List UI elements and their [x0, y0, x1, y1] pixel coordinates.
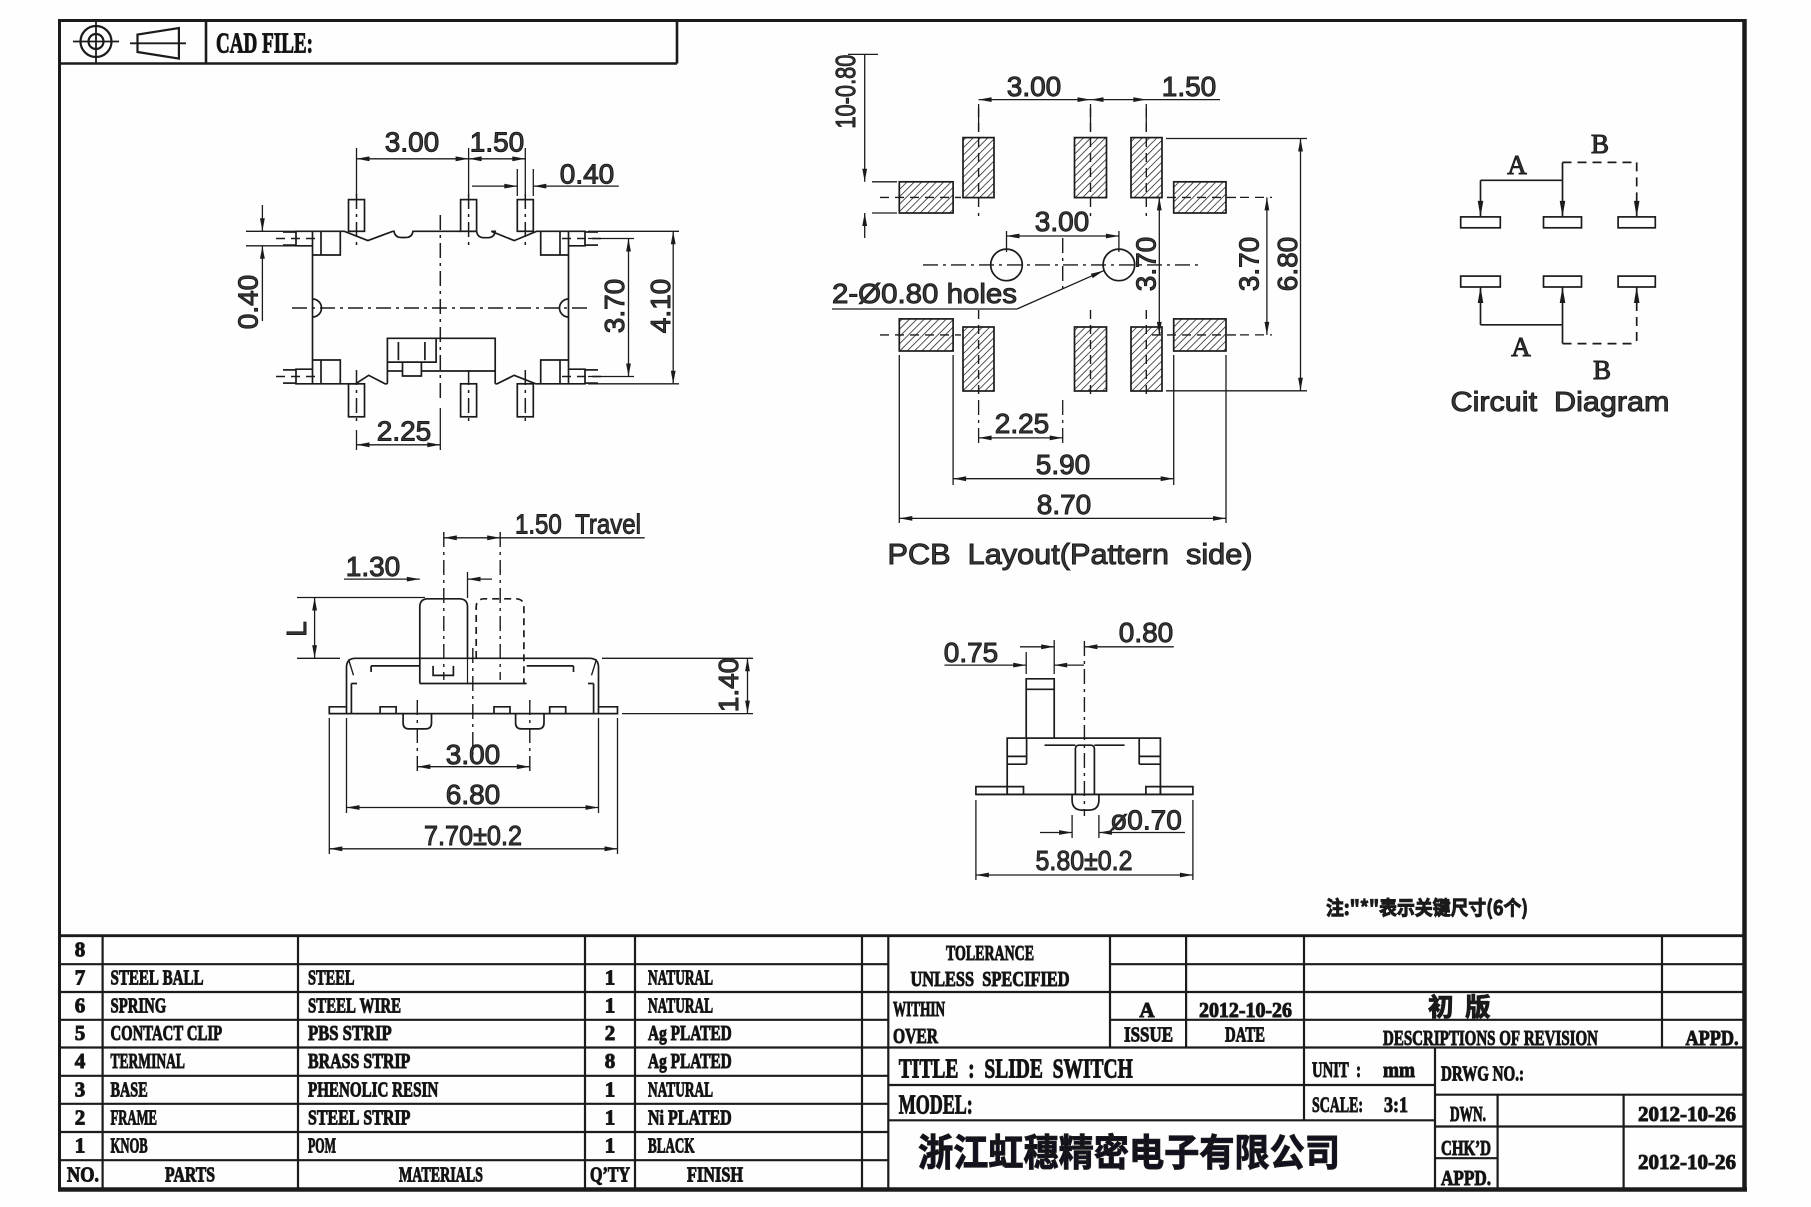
svg-text:3.70: 3.70 — [599, 279, 630, 334]
svg-text:NATURAL: NATURAL — [648, 1077, 713, 1101]
svg-text:OVER: OVER — [893, 1024, 939, 1048]
svg-text:10-0.80: 10-0.80 — [830, 55, 861, 129]
label 2-dia0.80 holes — [832, 269, 1105, 309]
parts table grid — [58, 936, 1746, 1189]
svg-text:STEEL STRIP: STEEL STRIP — [308, 1105, 410, 1129]
svg-text:2-Ø0.80 holes: 2-Ø0.80 holes — [832, 278, 1017, 309]
svg-text:0.75: 0.75 — [944, 637, 999, 668]
front view: bottom feet — [329, 707, 617, 714]
svg-text:PARTS: PARTS — [165, 1162, 215, 1186]
top view: side notch arcs — [313, 299, 569, 317]
svg-text:2012-10-26: 2012-10-26 — [1638, 1150, 1736, 1174]
side view: centerline — [1083, 641, 1085, 816]
svg-text:PBS STRIP: PBS STRIP — [308, 1021, 392, 1045]
svg-text:4.10: 4.10 — [645, 279, 676, 334]
svg-text:MATERIALS: MATERIALS — [399, 1162, 483, 1186]
wire A bottom — [1478, 287, 1566, 325]
svg-text:3.70: 3.70 — [1131, 237, 1162, 292]
svg-text:DESCRIPTIONS OF REVISION: DESCRIPTIONS OF REVISION — [1383, 1026, 1598, 1050]
svg-text:2: 2 — [75, 1105, 86, 1129]
svg-text:1: 1 — [605, 966, 616, 990]
svg-text:2.25: 2.25 — [995, 408, 1050, 439]
svg-text:STEEL WIRE: STEEL WIRE — [308, 993, 401, 1017]
svg-text:UNIT :: UNIT : — [1312, 1057, 1361, 1082]
node label B bottom — [1593, 355, 1611, 385]
svg-text:B: B — [1591, 129, 1609, 159]
svg-text:7: 7 — [75, 966, 86, 990]
svg-text:0.40: 0.40 — [560, 159, 615, 190]
svg-text:3:1: 3:1 — [1384, 1092, 1408, 1117]
node label A top — [1507, 150, 1527, 180]
svg-text:DWN.: DWN. — [1450, 1102, 1486, 1126]
svg-text:1: 1 — [605, 1077, 616, 1101]
front view: bottom legs — [403, 714, 544, 729]
title block grid — [888, 936, 1746, 1189]
parts table text — [67, 937, 743, 1186]
svg-text:BRASS STRIP: BRASS STRIP — [308, 1049, 410, 1073]
dimension dia0.70 side — [1040, 805, 1185, 839]
svg-text:1.30: 1.30 — [346, 551, 401, 582]
circuit terminal 3 bottom — [1618, 276, 1655, 287]
dimension 0.75 side — [944, 637, 1084, 674]
dimension L front — [281, 598, 425, 659]
circuit terminal 1 top — [1461, 217, 1501, 228]
top view: centerlines — [292, 215, 588, 402]
svg-text:4: 4 — [75, 1049, 86, 1073]
dimension 4.10 top view — [588, 231, 679, 383]
svg-text:NATURAL: NATURAL — [648, 966, 713, 990]
svg-text:POM: POM — [308, 1134, 336, 1158]
svg-text:B: B — [1593, 355, 1611, 385]
svg-text:NATURAL: NATURAL — [648, 993, 713, 1017]
note chinese — [1327, 898, 1527, 919]
svg-text:2.25: 2.25 — [377, 416, 432, 447]
svg-text:ISSUE: ISSUE — [1124, 1023, 1173, 1047]
svg-text:6.80: 6.80 — [1272, 237, 1303, 292]
dimension 8.70 PCB — [899, 355, 1226, 523]
top view: terminal pins bottom — [349, 370, 534, 424]
circuit terminal 2 bottom — [1544, 276, 1582, 287]
svg-text:PHENOLIC RESIN: PHENOLIC RESIN — [308, 1077, 438, 1101]
front view: knob posts — [420, 532, 527, 684]
front view: center line — [472, 648, 474, 762]
svg-text:ø0.70: ø0.70 — [1110, 805, 1182, 836]
dimension 5.90 PCB — [953, 355, 1174, 485]
svg-text:1.50: 1.50 — [1162, 71, 1217, 102]
top view: switch body outline — [313, 231, 569, 383]
CAD FILE label — [216, 29, 313, 60]
dimension 3.00 front — [417, 700, 530, 772]
svg-text:1: 1 — [605, 1134, 616, 1158]
svg-text:PCB Layout(Pattern side): PCB Layout(Pattern side) — [888, 539, 1253, 571]
svg-text:APPD.: APPD. — [1686, 1026, 1739, 1050]
title block text — [893, 941, 1739, 1190]
svg-text:8: 8 — [75, 937, 86, 961]
svg-text:1: 1 — [605, 1105, 616, 1129]
svg-text:FINISH: FINISH — [687, 1162, 743, 1186]
dimension 0.40 top view — [472, 159, 619, 197]
dimension 1.30 front — [344, 551, 492, 598]
PCB pad centerlines — [880, 108, 1240, 400]
svg-text:STEEL: STEEL — [308, 966, 355, 990]
dimension 3.00 top view — [357, 127, 526, 197]
top view: knob — [387, 338, 495, 384]
svg-text:2: 2 — [605, 1021, 616, 1045]
svg-text:3.00: 3.00 — [385, 127, 440, 158]
svg-text:0.80: 0.80 — [1119, 617, 1174, 648]
svg-text:1.50 Travel: 1.50 Travel — [515, 509, 641, 540]
svg-text:NO.: NO. — [67, 1162, 99, 1186]
svg-text:TITLE : SLIDE SWITCH: TITLE : SLIDE SWITCH — [899, 1054, 1133, 1084]
side view: center pin — [1072, 745, 1099, 810]
svg-text:SPRING: SPRING — [111, 993, 167, 1017]
svg-text:MODEL:: MODEL: — [899, 1090, 973, 1120]
svg-text:6: 6 — [75, 993, 86, 1017]
dimension 7.70 front — [329, 718, 617, 854]
svg-text:L: L — [281, 621, 312, 637]
circuit diagram caption — [1451, 386, 1670, 417]
wire B top dashed — [1563, 162, 1640, 217]
dimension 3.70 PCB right — [1234, 197, 1273, 335]
svg-text:DRWG NO.:: DRWG NO.: — [1441, 1062, 1524, 1086]
svg-text:1: 1 — [605, 993, 616, 1017]
svg-text:5.80±0.2: 5.80±0.2 — [1036, 845, 1133, 876]
dimension 2.25 PCB — [979, 400, 1063, 443]
PCB pads hatched — [899, 138, 1226, 391]
dimension 10-0.80 — [830, 54, 897, 238]
svg-text:BLACK: BLACK — [648, 1134, 695, 1158]
svg-text:CAD FILE:: CAD FILE: — [216, 29, 313, 60]
circuit terminal 2 top — [1544, 217, 1582, 228]
circuit terminal 1 bottom — [1461, 276, 1501, 287]
dimension 1.50 top view — [470, 127, 525, 158]
svg-text:Q’TY: Q’TY — [590, 1162, 630, 1186]
svg-text:TOLERANCE: TOLERANCE — [946, 941, 1034, 965]
svg-text:1.40: 1.40 — [713, 658, 744, 713]
wire A top — [1478, 180, 1566, 217]
wire B bottom dashed — [1563, 287, 1640, 344]
svg-text:2012-10-26: 2012-10-26 — [1199, 998, 1292, 1022]
svg-text:1.50: 1.50 — [470, 127, 525, 158]
third-angle projection symbol — [73, 20, 186, 64]
top view: inner corner blocks — [313, 231, 569, 383]
dimension 3.70 PCB inner — [1131, 197, 1162, 335]
svg-text:2012-10-26: 2012-10-26 — [1638, 1102, 1736, 1126]
svg-text:UNLESS SPECIFIED: UNLESS SPECIFIED — [911, 967, 1070, 991]
svg-text:3.00: 3.00 — [1007, 71, 1062, 102]
dimension 3.70 top view — [588, 239, 634, 377]
svg-text:Circuit Diagram: Circuit Diagram — [1451, 386, 1670, 417]
svg-text:5.90: 5.90 — [1036, 449, 1091, 480]
svg-text:3.00: 3.00 — [1035, 206, 1090, 237]
revision label chuban — [1429, 994, 1490, 1018]
svg-text:8.70: 8.70 — [1037, 489, 1092, 520]
svg-text:STEEL BALL: STEEL BALL — [111, 966, 204, 990]
svg-text:FRAME: FRAME — [111, 1105, 158, 1129]
dimension 6.80 front — [347, 718, 599, 813]
svg-text:Ag PLATED: Ag PLATED — [648, 1021, 732, 1045]
dimension 3.00 holes — [1007, 206, 1119, 252]
svg-text:WITHIN: WITHIN — [893, 997, 945, 1021]
dimension 1.50 Travel front — [444, 509, 645, 541]
top view: terminal pins top — [349, 194, 534, 246]
dimension 1.40 front — [602, 658, 753, 714]
svg-text:3.70: 3.70 — [1234, 237, 1265, 292]
svg-text:A: A — [1511, 332, 1531, 362]
side view: knob post — [1026, 679, 1054, 738]
node label A bottom — [1511, 332, 1531, 362]
svg-text:SCALE:: SCALE: — [1312, 1092, 1363, 1117]
svg-text:3: 3 — [75, 1077, 86, 1101]
svg-text:TERMINAL: TERMINAL — [111, 1049, 185, 1073]
svg-text:APPD.: APPD. — [1441, 1166, 1491, 1190]
svg-text:7.70±0.2: 7.70±0.2 — [424, 820, 522, 851]
svg-text:CHK’D: CHK’D — [1441, 1136, 1491, 1160]
svg-text:A: A — [1139, 998, 1155, 1022]
side view: body — [1007, 738, 1160, 794]
dimension 0.80 side — [1020, 617, 1174, 649]
PCB holes — [923, 238, 1200, 292]
svg-text:6.80: 6.80 — [446, 779, 501, 810]
svg-text:3.00: 3.00 — [446, 739, 501, 770]
front view: body outline — [347, 658, 599, 713]
dimension 2.25 top view — [357, 408, 441, 450]
node label B top — [1591, 129, 1609, 159]
svg-text:Ag PLATED: Ag PLATED — [648, 1049, 732, 1073]
svg-text:DATE: DATE — [1225, 1023, 1265, 1047]
svg-text:Ni PLATED: Ni PLATED — [648, 1105, 732, 1129]
dimension 3.00 PCB top — [979, 71, 1220, 131]
svg-text:5: 5 — [75, 1021, 86, 1045]
title header box — [58, 19, 677, 64]
svg-text:CONTACT CLIP: CONTACT CLIP — [111, 1021, 223, 1045]
svg-text:KNOB: KNOB — [111, 1134, 148, 1158]
svg-text:0.40: 0.40 — [233, 275, 264, 330]
svg-text:BASE: BASE — [111, 1077, 148, 1101]
dimension 6.80 PCB — [1166, 139, 1307, 391]
svg-text:8: 8 — [605, 1049, 616, 1073]
PCB layout caption — [888, 539, 1253, 571]
dimension 0.40 left top view — [233, 205, 299, 329]
top view: corner terminal tabs — [276, 231, 605, 383]
svg-text:1: 1 — [75, 1134, 86, 1158]
side view: feet — [976, 787, 1193, 795]
circuit terminal 3 top — [1618, 217, 1655, 228]
dimension 5.80 side — [976, 800, 1193, 880]
company name — [919, 1133, 1337, 1169]
svg-text:A: A — [1507, 150, 1527, 180]
svg-text:mm: mm — [1383, 1057, 1415, 1082]
dimension 1.50 PCB top — [1162, 71, 1217, 102]
